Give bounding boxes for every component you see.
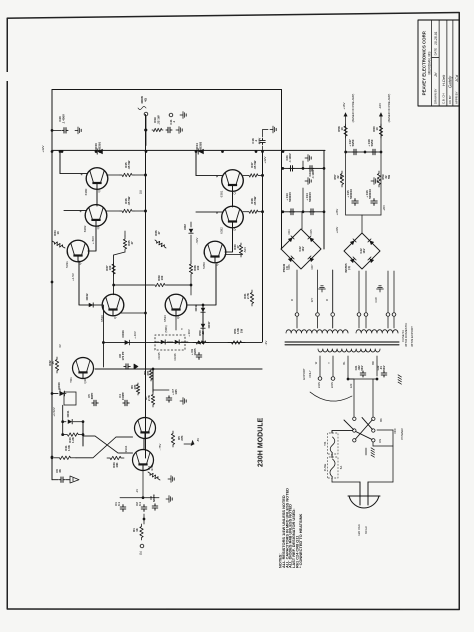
svg-text:JH: JH	[434, 72, 438, 78]
resistor R50 .22	[193, 341, 209, 344]
ground 16v mid	[371, 180, 374, 182]
zener CR2	[189, 229, 193, 233]
wire bias col B	[82, 422, 84, 446]
resistor R1 1K	[140, 524, 143, 540]
wire left supply rail	[51, 90, 53, 480]
transistor Q2 6382	[85, 205, 107, 227]
transistor Q6 5350	[204, 241, 226, 263]
svg-text:10: 10	[340, 127, 344, 131]
resistor R40 1.2K	[63, 433, 83, 436]
wire CR chain	[202, 305, 204, 343]
wire input row	[120, 497, 159, 499]
bias box	[64, 392, 76, 405]
transistor Q7 6530	[102, 294, 124, 316]
svg-text:5A: 5A	[339, 466, 343, 470]
svg-text:68: 68	[58, 469, 62, 473]
junction	[261, 150, 264, 153]
svg-text:0.1: 0.1	[138, 502, 142, 506]
transistor Q5 5331	[67, 240, 89, 262]
wire 16V cross2	[346, 214, 381, 216]
svg-text:50/50: 50/50	[351, 139, 355, 146]
svg-text:5000/16: 5000/16	[349, 189, 353, 199]
svg-text:JCd: JCd	[454, 74, 459, 83]
svg-text:1/35: 1/35	[174, 389, 178, 395]
wire bridge1 stem	[301, 212, 303, 229]
svg-text:100: 100	[196, 265, 200, 270]
wire Q1-Q2	[96, 188, 98, 206]
svg-text:10-28-91: 10-28-91	[434, 31, 438, 45]
svg-text:CR46: CR46	[173, 353, 177, 361]
svg-text:5000/15: 5000/15	[308, 192, 312, 202]
svg-text:240V: 240V	[317, 382, 321, 388]
capacitor C9 10/25	[196, 353, 202, 360]
svg-text:R: R	[325, 299, 329, 301]
ground secondary1	[321, 289, 323, 292]
output jack hot terminal	[144, 112, 148, 116]
svg-text:10/25: 10/25	[193, 348, 197, 355]
resistor R31 2.7K	[250, 290, 253, 306]
wire primary bus	[348, 378, 377, 380]
svg-text:-.75V: -.75V	[158, 444, 162, 451]
wire +42V vertical rail	[52, 149, 325, 151]
svg-text:BR: BR	[371, 361, 375, 365]
wire Q6 emitter	[187, 264, 216, 305]
input terminal	[140, 544, 144, 548]
wire secondary lead b	[332, 317, 334, 328]
svg-text:2.7K: 2.7K	[246, 293, 250, 299]
resistor R24 10	[52, 241, 65, 248]
resistor R45 .05 5W	[107, 174, 121, 176]
svg-text:5KV: 5KV	[382, 365, 386, 370]
wire 16V cross	[346, 151, 381, 153]
wire secondary lead	[332, 270, 334, 312]
svg-text:+.50V: +.50V	[91, 236, 95, 244]
junction	[282, 150, 285, 153]
junction	[51, 150, 54, 153]
AC plug	[348, 496, 380, 508]
svg-text:10: 10	[56, 231, 60, 235]
wire psu filter row1	[283, 167, 324, 169]
svg-text:CR2: CR2	[183, 224, 187, 230]
svg-text:Q8: Q8	[176, 315, 180, 319]
resistor R25 47	[124, 231, 126, 236]
svg-text:+.40V: +.40V	[133, 331, 137, 339]
svg-text:.05 5W: .05 5W	[127, 196, 131, 205]
resistor R47 .05 5W	[243, 174, 248, 176]
resistor R26 47	[155, 240, 166, 248]
wire Q5 emitter	[79, 261, 102, 305]
secondary terminal	[331, 313, 335, 317]
svg-text:+1.52V: +1.52V	[52, 407, 56, 416]
diodes CR45 CR46 dashed box	[155, 335, 185, 350]
svg-text:150PF: 150PF	[121, 392, 125, 400]
wire driver column	[95, 368, 262, 370]
wire Q8 emitter	[175, 316, 177, 330]
svg-text:C.B. CH: C.B. CH	[442, 93, 446, 104]
svg-text:220V: 220V	[330, 382, 334, 388]
wire switch down L	[332, 431, 353, 434]
svg-text:680PF: 680PF	[152, 494, 156, 502]
capacitor C2 0.1	[141, 505, 147, 512]
svg-text:CR6: CR6	[288, 264, 291, 270]
secondary terminal	[295, 313, 299, 317]
wire +42V feed bus	[262, 152, 264, 342]
svg-text:15: 15	[51, 361, 55, 365]
transistor Q10 3904	[133, 450, 154, 471]
wire TB-fuse	[331, 454, 333, 458]
svg-text:CR4: CR4	[288, 229, 291, 235]
junction	[255, 150, 258, 153]
wire Q4 down	[225, 227, 233, 252]
svg-text:120 VAC: 120 VAC	[357, 523, 361, 536]
capacitor C1 0.1	[120, 505, 126, 512]
svg-text:CR48: CR48	[194, 304, 198, 311]
border gap artifact	[6, 72, 9, 81]
junction	[261, 174, 264, 177]
svg-text:+42V: +42V	[41, 145, 45, 152]
capacitor C22 .01	[381, 371, 387, 377]
svg-text:R: R	[290, 299, 294, 301]
wire Q7 emitter	[120, 312, 146, 314]
out arrow symbol	[70, 476, 79, 483]
svg-text:47: 47	[236, 245, 240, 249]
transistor Q9 3904	[135, 418, 156, 439]
wire 120 tap	[347, 376, 349, 379]
svg-text:6382: 6382	[220, 227, 224, 234]
resistor R32 15	[55, 357, 58, 373]
junction	[61, 150, 64, 153]
svg-text:10: 10	[375, 127, 379, 131]
export arc	[310, 392, 352, 401]
svg-text:47: 47	[130, 241, 134, 245]
transformer secondary coil 1	[286, 330, 348, 333]
svg-text:.22 1W: .22 1W	[156, 115, 160, 124]
resistor R48 .05 5W	[243, 211, 248, 213]
svg-text:4.7K: 4.7K	[150, 465, 154, 471]
resistor R30 47	[225, 254, 241, 256]
transistor Q1 6380	[86, 168, 108, 190]
capacitor C14 5000/15	[309, 209, 314, 215]
resistor R5 27K	[171, 431, 174, 447]
capacitor C17 50/50	[352, 149, 357, 155]
wire fuse down	[331, 478, 333, 482]
resistor R29 100	[153, 283, 167, 286]
transistor Q8 6533	[165, 294, 187, 316]
ground lower mid	[168, 478, 171, 480]
wire cross-coupled pair	[83, 436, 133, 453]
svg-text:DRAWN BY: DRAWN BY	[434, 88, 438, 104]
resistor R27 100	[112, 262, 115, 276]
svg-text:1KV: 1KV	[301, 246, 305, 251]
resistor R57 22 5W	[340, 171, 343, 187]
fuse 5A	[328, 457, 339, 478]
capacitor C24 0.1 100V	[308, 166, 313, 172]
wire right bus	[281, 90, 283, 250]
secondary terminal	[316, 313, 320, 317]
svg-text:27K: 27K	[146, 370, 150, 375]
svg-text:6381: 6381	[220, 190, 224, 197]
svg-text:120: 120	[349, 383, 353, 388]
resistor R4 4.7K	[148, 472, 160, 480]
svg-text:5350: 5350	[202, 262, 206, 269]
secondary2 terminal	[386, 313, 390, 317]
wire Q3-Q4	[232, 191, 234, 208]
svg-text:TR1: TR1	[69, 377, 73, 383]
svg-text:BK: BK	[379, 418, 383, 422]
svg-text:4Ω: 4Ω	[143, 97, 147, 102]
svg-text:.05 5W: .05 5W	[253, 160, 257, 169]
zener CR39	[52, 393, 58, 395]
svg-text:-16V: -16V	[378, 103, 382, 109]
wire Q10 emitter	[142, 471, 144, 498]
svg-text:5KV: 5KV	[360, 365, 364, 370]
svg-text:DATE: DATE	[434, 48, 438, 56]
svg-text:-26V: -26V	[382, 205, 386, 211]
svg-text:+42V: +42V	[263, 156, 267, 163]
resistor R28 100	[189, 262, 192, 276]
capacitor C23 0.1 100V	[289, 166, 294, 172]
resistor R46 .05 5W	[106, 210, 120, 212]
capacitor C19 50/50	[371, 149, 376, 155]
svg-text:+16V: +16V	[342, 102, 346, 109]
svg-text:6533: 6533	[163, 315, 167, 322]
svg-text:3904: 3904	[124, 445, 128, 452]
svg-text:Q4: Q4	[233, 227, 237, 231]
resistor R7 2.7K	[152, 369, 154, 392]
svg-text:+.90V: +.90V	[187, 329, 191, 337]
wire to switch L	[348, 379, 354, 417]
secondary2 terminal	[392, 313, 396, 317]
wire psu filter row2	[283, 211, 324, 213]
wire top bus	[52, 89, 282, 91]
capacitor C21 .022	[360, 371, 366, 377]
junction	[95, 150, 98, 153]
wire feedback row	[95, 368, 262, 370]
svg-text:2.7K: 2.7K	[147, 395, 151, 401]
svg-text:450V: 450V	[257, 138, 261, 145]
resistor R41 1.5K	[54, 456, 76, 459]
svg-text:EXPORT: EXPORT	[302, 368, 306, 380]
svg-text:C/W: C/W	[374, 297, 378, 303]
wire secondary2 lead	[365, 271, 367, 312]
wire secondary lead	[317, 270, 319, 312]
wire secondary2 lead b	[393, 317, 395, 328]
wire secondary2 lead	[393, 271, 395, 312]
svg-text:Q1: Q1	[97, 188, 101, 192]
resistor R58 10	[344, 124, 347, 138]
wire +16V rail	[345, 113, 347, 215]
svg-text:CR45: CR45	[157, 352, 161, 360]
svg-text:1.2K: 1.2K	[71, 437, 75, 443]
svg-text:100: 100	[108, 265, 112, 270]
svg-text:-3V: -3V	[264, 341, 268, 346]
svg-text:45T34 DOMESTIC: 45T34 DOMESTIC	[404, 323, 408, 347]
junction	[142, 496, 145, 499]
svg-text:BL: BL	[342, 361, 346, 365]
wire secondary2 lead	[358, 271, 360, 312]
svg-text:(ZENER ON PRE-AMP): (ZENER ON PRE-AMP)	[351, 94, 355, 123]
svg-text:40K: 40K	[115, 462, 119, 467]
svg-text:*: *	[180, 328, 185, 330]
junction	[51, 456, 54, 459]
wire to switch R	[372, 379, 374, 417]
wire Q1 base	[60, 173, 87, 175]
resistor R8 27K	[149, 369, 152, 381]
svg-text:(ZENER ON PRE-AMP): (ZENER ON PRE-AMP)	[387, 94, 391, 123]
svg-text:.05 5W: .05 5W	[253, 196, 257, 205]
svg-text:6382: 6382	[83, 225, 87, 232]
svg-text:* CONNECTED TO HEATSINK: * CONNECTED TO HEATSINK	[298, 513, 303, 568]
transistor TR1	[73, 358, 94, 379]
svg-text:Q2: Q2	[96, 225, 100, 229]
junction	[221, 150, 224, 153]
primary terminal 220	[331, 377, 335, 381]
wire switch right leg	[372, 442, 374, 446]
ground psu row1	[302, 161, 304, 168]
thermal breaker T.B.	[328, 433, 339, 454]
capacitor C18 0.1 450V	[262, 146, 264, 152]
output jack return terminal	[169, 113, 173, 117]
svg-text:Y: Y	[327, 362, 331, 364]
capacitor C3 680PF	[152, 504, 158, 510]
svg-text:230H MODULE: 230H MODULE	[258, 417, 265, 467]
diode CR40 1N5391	[97, 149, 103, 154]
svg-text:R/Y: R/Y	[310, 298, 314, 303]
wire psu right col	[323, 150, 325, 249]
title block	[418, 20, 459, 106]
svg-text:Q11: Q11	[83, 378, 87, 384]
svg-text:CK BY: CK BY	[448, 95, 452, 104]
svg-text:100: 100	[160, 275, 164, 280]
svg-text:5W: 5W	[387, 175, 391, 179]
svg-text:CR5: CR5	[310, 229, 313, 235]
junction	[144, 210, 147, 213]
svg-text:T.B.: T.B.	[323, 441, 327, 446]
capacitor C10 170PF	[124, 364, 130, 369]
capacitor C40 0.1 450V	[52, 129, 61, 131]
primary terminal 240	[318, 377, 322, 381]
capacitor C7 1/35	[166, 396, 172, 402]
svg-text:H.Delt: H.Delt	[441, 74, 446, 86]
wire bias col A	[62, 405, 64, 434]
svg-text:50/50: 50/50	[370, 139, 374, 146]
svg-text:CR42: CR42	[85, 293, 89, 300]
power switch DPDT	[353, 417, 356, 420]
svg-text:PEAVEY ELECTRONICS CORP.: PEAVEY ELECTRONICS CORP.	[422, 31, 427, 96]
wire bias row2	[103, 342, 262, 344]
chassis gnd switch	[371, 455, 374, 457]
svg-text:CR7: CR7	[311, 264, 314, 270]
resistor R49 .22 1W	[152, 128, 163, 131]
junction	[201, 150, 204, 153]
diode CR47b	[201, 324, 205, 328]
wire Q2 down	[88, 225, 96, 251]
svg-text:47: 47	[157, 231, 161, 235]
wire bridge2 stem	[361, 215, 363, 233]
resistor R33 40K	[107, 456, 124, 459]
svg-text:Q7: Q7	[113, 315, 117, 319]
svg-text:.05 5W: .05 5W	[127, 160, 131, 169]
svg-text:OFF: OFF	[393, 428, 397, 434]
diode CR44 1N5393	[198, 149, 204, 154]
svg-text:3V: 3V	[58, 344, 62, 348]
svg-text:(5M6): (5M6)	[164, 325, 168, 332]
svg-text:.1 450V: .1 450V	[61, 114, 65, 124]
wire input joint	[143, 514, 145, 524]
svg-text:5331: 5331	[65, 261, 69, 268]
transistor Q4 6382	[222, 206, 244, 228]
resistor R59 22 5W	[377, 171, 380, 187]
svg-text:POWER: POWER	[400, 428, 404, 440]
capacitor C13 5000/15	[289, 209, 294, 215]
svg-text:(4): (4)	[347, 266, 351, 269]
svg-text:Gately: Gately	[448, 75, 453, 88]
svg-text:MERIDIAN, MS: MERIDIAN, MS	[427, 51, 431, 75]
capacitor C16 5000/16	[371, 199, 377, 206]
svg-text:1W: 1W	[239, 329, 243, 334]
svg-text:.22: .22	[201, 331, 205, 335]
transformer secondary coil 2	[356, 330, 398, 333]
svg-text:47K: 47K	[133, 384, 137, 389]
ground secondary2	[379, 289, 381, 292]
svg-text:-8V: -8V	[196, 438, 200, 442]
svg-text:CR41: CR41	[66, 410, 70, 417]
capacitor C4 150PF	[123, 400, 129, 406]
transistor Q3 6381	[222, 170, 244, 192]
svg-text:+20V: +20V	[335, 227, 339, 234]
wire 0V output bus	[145, 115, 147, 459]
junction	[51, 281, 54, 284]
resistor R60 10	[379, 124, 382, 138]
diode CR42	[89, 303, 93, 307]
svg-text:5W: 5W	[339, 175, 343, 179]
wire jack to bus	[145, 116, 147, 146]
wire primary tap W	[319, 356, 321, 376]
svg-text:170 PF: 170 PF	[121, 351, 125, 360]
secondary2 terminal	[364, 313, 368, 317]
svg-text:1.5K: 1.5K	[67, 445, 71, 451]
svg-text:-.53V: -.53V	[195, 238, 199, 245]
svg-text:ONLY: ONLY	[308, 370, 312, 378]
svg-text:1K: 1K	[135, 528, 139, 532]
svg-text:Q3: Q3	[233, 190, 237, 194]
diode CR48	[201, 308, 205, 312]
chassis gnd primary	[398, 382, 401, 384]
wire Q3 base	[196, 175, 222, 177]
wire power off stub	[377, 429, 393, 431]
svg-text:0.1: 0.1	[117, 502, 121, 506]
capacitor C6 68PF	[92, 400, 98, 406]
resistor R6 47K	[136, 383, 139, 395]
wire secondary2 lead	[387, 271, 389, 312]
wire secondary lead b	[317, 317, 319, 328]
svg-text:60 Hz: 60 Hz	[364, 526, 368, 534]
resistor R51 1.5K 1W	[228, 341, 245, 344]
svg-text:.1 100V: .1 100V	[311, 169, 315, 178]
svg-text:-1V: -1V	[135, 489, 139, 493]
svg-text:5000/15: 5000/15	[288, 192, 292, 202]
svg-text:.1 100V: .1 100V	[288, 153, 292, 162]
wire secondary2 lead b	[365, 317, 367, 328]
wire driver row	[114, 284, 153, 286]
junction	[144, 174, 147, 177]
junction	[145, 150, 148, 153]
junction	[261, 210, 264, 213]
wire secondary lead	[296, 270, 298, 312]
transformer primary coil	[318, 349, 380, 352]
svg-text:+26V: +26V	[335, 209, 339, 216]
svg-text:1KV: 1KV	[362, 248, 366, 253]
